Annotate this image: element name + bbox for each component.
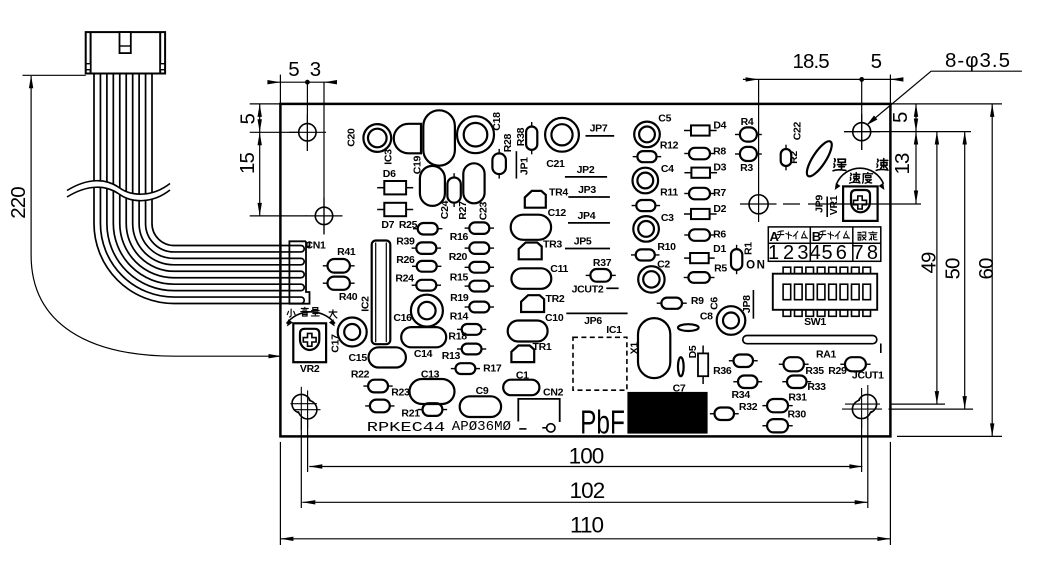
svg-text:APØ36MØ: APØ36MØ: [452, 419, 512, 435]
svg-text:CN2: CN2: [543, 387, 564, 399]
svg-text:C21: C21: [546, 158, 565, 170]
svg-text:2: 2: [783, 242, 794, 264]
svg-text:110: 110: [570, 513, 604, 538]
svg-text:R22: R22: [351, 368, 370, 380]
svg-text:R4: R4: [741, 116, 754, 128]
svg-text:C9: C9: [476, 385, 489, 397]
svg-text:C5: C5: [658, 112, 671, 124]
svg-text:D4: D4: [713, 119, 726, 131]
svg-text:VR1: VR1: [828, 195, 840, 215]
svg-text:C17: C17: [330, 334, 342, 353]
svg-text:C7: C7: [673, 383, 686, 395]
svg-text:PbF: PbF: [580, 405, 625, 441]
svg-text:R32: R32: [739, 401, 758, 413]
svg-text:R7: R7: [713, 187, 726, 199]
svg-text:X1: X1: [629, 342, 641, 355]
svg-text:C18: C18: [491, 112, 503, 131]
svg-text:15: 15: [236, 153, 259, 175]
svg-text:TR1: TR1: [533, 341, 552, 353]
svg-text:3: 3: [310, 58, 321, 81]
svg-text:R15: R15: [450, 271, 469, 283]
svg-text:JP1: JP1: [518, 157, 530, 175]
svg-text:JP4: JP4: [578, 210, 596, 222]
svg-text:R28: R28: [502, 133, 514, 152]
svg-text:JP7: JP7: [590, 122, 608, 134]
svg-text:JP2: JP2: [577, 164, 595, 176]
svg-text:5: 5: [288, 58, 299, 81]
svg-text:SW1: SW1: [804, 316, 826, 328]
svg-text:R19: R19: [450, 292, 469, 304]
svg-text:50: 50: [942, 258, 965, 280]
svg-text:R38: R38: [515, 127, 527, 146]
svg-text:R39: R39: [396, 236, 415, 248]
svg-text:5: 5: [237, 113, 260, 124]
svg-text:C8: C8: [700, 310, 713, 322]
svg-text:18.5: 18.5: [792, 50, 829, 73]
svg-text:IC3: IC3: [382, 149, 394, 165]
svg-text:R14: R14: [450, 310, 469, 322]
svg-text:RA1: RA1: [816, 348, 837, 360]
svg-text:R23: R23: [391, 386, 410, 398]
svg-text:B: B: [812, 229, 821, 244]
svg-text:R6: R6: [713, 229, 726, 241]
svg-text:49: 49: [918, 252, 941, 274]
svg-text:R18: R18: [448, 331, 467, 343]
svg-text:100: 100: [569, 443, 604, 468]
svg-text:JCUT1: JCUT1: [852, 369, 884, 381]
svg-text:6: 6: [836, 242, 847, 264]
svg-text:3: 3: [797, 242, 808, 264]
svg-text:5: 5: [821, 242, 832, 264]
svg-text:C19: C19: [412, 155, 424, 174]
svg-text:C22: C22: [792, 121, 804, 140]
svg-text:D2: D2: [713, 203, 726, 215]
svg-text:R13: R13: [442, 350, 461, 362]
svg-text:JP8: JP8: [741, 295, 753, 313]
svg-text:R33: R33: [807, 381, 826, 393]
svg-text:R12: R12: [660, 140, 679, 152]
svg-text:R40: R40: [339, 291, 358, 303]
svg-text:D5: D5: [687, 345, 699, 358]
svg-text:C3: C3: [661, 212, 674, 224]
svg-text:R41: R41: [337, 246, 356, 258]
svg-text:CN1: CN1: [305, 240, 326, 252]
svg-text:R5: R5: [714, 263, 727, 275]
svg-text:IC1: IC1: [606, 324, 622, 336]
svg-text:JP3: JP3: [578, 184, 596, 196]
svg-text:C13: C13: [421, 368, 440, 380]
svg-text:R34: R34: [732, 389, 751, 401]
svg-text:C4: C4: [661, 163, 674, 175]
svg-text:C14: C14: [414, 348, 433, 360]
svg-text:C20: C20: [345, 128, 357, 147]
svg-text:R9: R9: [691, 295, 704, 307]
svg-text:JCUT2: JCUT2: [572, 284, 604, 296]
svg-text:R20: R20: [449, 251, 468, 263]
svg-text:R24: R24: [395, 273, 414, 285]
svg-text:R31: R31: [788, 391, 807, 403]
svg-text:R25: R25: [399, 219, 418, 231]
svg-text:D7: D7: [381, 219, 394, 231]
svg-text:A: A: [770, 229, 780, 244]
svg-text:102: 102: [569, 478, 604, 503]
svg-text:C16: C16: [393, 312, 412, 324]
svg-text:5: 5: [871, 50, 882, 73]
svg-text:R10: R10: [657, 241, 676, 253]
svg-text:R16: R16: [450, 231, 469, 243]
svg-text:C24: C24: [439, 200, 451, 219]
svg-text:IC2: IC2: [360, 296, 372, 312]
svg-text:R2: R2: [788, 151, 800, 164]
svg-text:8-φ3.5: 8-φ3.5: [945, 49, 1011, 72]
svg-text:ON: ON: [746, 260, 766, 272]
svg-text:5: 5: [889, 112, 912, 123]
svg-text:13: 13: [891, 153, 914, 175]
svg-text:R1: R1: [742, 242, 754, 255]
svg-text:JP5: JP5: [574, 236, 592, 248]
svg-text:R27: R27: [457, 201, 469, 220]
svg-text:C12: C12: [548, 207, 567, 219]
svg-text:R29: R29: [828, 365, 847, 377]
svg-text:RPKEC44: RPKEC44: [367, 420, 446, 436]
svg-text:R26: R26: [396, 254, 415, 266]
svg-text:7: 7: [852, 242, 863, 264]
svg-text:R30: R30: [788, 408, 807, 420]
svg-text:4: 4: [810, 242, 821, 264]
svg-text:JP6: JP6: [584, 315, 602, 327]
svg-text:D3: D3: [713, 162, 726, 174]
svg-text:VR2: VR2: [300, 363, 320, 375]
svg-text:TR3: TR3: [543, 239, 562, 251]
svg-text:220: 220: [7, 187, 30, 219]
svg-text:C6: C6: [708, 297, 720, 310]
svg-text:8: 8: [867, 242, 878, 264]
svg-text:TR2: TR2: [546, 293, 565, 305]
svg-text:C15: C15: [349, 352, 368, 364]
svg-text:R36: R36: [713, 365, 732, 377]
svg-text:R11: R11: [660, 187, 678, 199]
svg-text:D6: D6: [383, 168, 396, 180]
svg-text:JP9: JP9: [814, 195, 826, 213]
svg-text:R3: R3: [740, 162, 753, 174]
svg-text:C10: C10: [545, 312, 564, 324]
svg-text:C1: C1: [516, 369, 529, 381]
svg-text:C2: C2: [657, 259, 670, 271]
svg-text:D1: D1: [713, 243, 726, 255]
svg-text:C23: C23: [477, 201, 489, 220]
svg-text:TR4: TR4: [549, 186, 568, 198]
svg-text:60: 60: [975, 258, 998, 280]
svg-text:R37: R37: [593, 257, 612, 269]
svg-text:R21: R21: [401, 407, 420, 419]
svg-text:R35: R35: [805, 365, 824, 377]
svg-text:R17: R17: [483, 363, 502, 375]
svg-text:C11: C11: [550, 263, 568, 275]
svg-text:R8: R8: [713, 146, 726, 158]
svg-text:1: 1: [768, 242, 779, 264]
